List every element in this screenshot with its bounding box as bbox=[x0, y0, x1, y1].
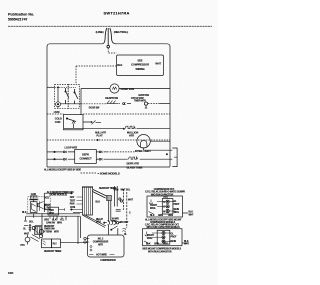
switch diagonals bbox=[31, 235, 41, 242]
wires to compressor bbox=[60, 242, 87, 244]
legend some models bbox=[81, 172, 97, 174]
svg-text:COND. FAN: COND. FAN bbox=[121, 87, 135, 91]
plug (service cord) bbox=[103, 28, 116, 48]
wire bundle bbox=[77, 187, 94, 215]
svg-text:CONNECT: CONNECT bbox=[79, 156, 92, 160]
mullion heater wire bbox=[64, 128, 124, 130]
connector pair row 1 left bbox=[63, 151, 65, 153]
diagonal BLK wire bbox=[93, 190, 107, 199]
svg-text:COMPRESSOR: COMPRESSOR bbox=[100, 260, 116, 262]
cold control output switch bbox=[83, 121, 101, 125]
svg-text:BLK: BLK bbox=[146, 244, 151, 246]
svg-text:WDG: WDG bbox=[150, 208, 156, 210]
svg-text:PTC RLY: PTC RLY bbox=[120, 222, 129, 224]
svg-text:RLY: RLY bbox=[53, 244, 58, 246]
defrost connector box bbox=[75, 150, 97, 164]
svg-text:SOL: SOL bbox=[29, 221, 34, 223]
wire dashed row 1 to lamp bbox=[107, 151, 135, 153]
svg-text:LOOP HTR: LOOP HTR bbox=[65, 146, 78, 150]
svg-text:YEL: YEL bbox=[60, 220, 65, 222]
wire row 1 from left bus bbox=[47, 151, 63, 153]
wire top to vertical bbox=[44, 192, 71, 194]
svg-text:RELAY: RELAY bbox=[96, 218, 104, 221]
timer motor box bbox=[48, 207, 59, 215]
labels evap fan / timer motor bbox=[131, 94, 149, 103]
svg-text:BLK: BLK bbox=[52, 220, 57, 222]
svg-text:MULL HTR: MULL HTR bbox=[95, 133, 106, 135]
defrost timer label bbox=[47, 188, 117, 197]
NO NC labels bbox=[45, 198, 50, 208]
svg-text:WHT: WHT bbox=[155, 62, 161, 66]
svg-text:MTR: MTR bbox=[54, 231, 59, 233]
svg-text:C.F.C. RELAY COMPRESSOR CKT.: C.F.C. RELAY COMPRESSOR CKT. bbox=[145, 224, 180, 227]
dashed some-models wire lower bbox=[47, 139, 170, 141]
wire bottom bbox=[47, 166, 170, 168]
defrost timer assembly outline bbox=[28, 197, 50, 214]
ice maker multi-contact switch bbox=[107, 101, 121, 104]
svg-text:ALL MODELS EXCEPT SIDE BY SIDE: ALL MODELS EXCEPT SIDE BY SIDE bbox=[44, 168, 81, 171]
wire row 2 from left bus bbox=[47, 158, 63, 160]
wire dashed to right bus bbox=[148, 103, 160, 105]
svg-text:GRN: GRN bbox=[114, 190, 119, 192]
svg-text:N.O.: N.O. bbox=[45, 198, 50, 200]
timer switch box bbox=[30, 202, 37, 213]
svg-text:M: M bbox=[163, 211, 165, 213]
wiring inside light boxes bbox=[55, 86, 77, 88]
switch cluster bbox=[38, 201, 44, 211]
service cord bracket bbox=[172, 148, 177, 167]
box B header bbox=[145, 224, 180, 230]
svg-text:WHT: WHT bbox=[189, 214, 195, 216]
junction row 1 bbox=[54, 151, 55, 152]
connector pair row 2 left bbox=[63, 158, 65, 160]
svg-text:PL HT: PL HT bbox=[97, 135, 104, 137]
svg-text:GRN: GRN bbox=[158, 215, 163, 217]
svg-text:SEE: SEE bbox=[138, 59, 143, 63]
connector pair row 1 right bbox=[96, 151, 99, 153]
junction row 2 bbox=[54, 159, 55, 160]
stub wires to bundle bbox=[70, 210, 83, 213]
svg-text:ORG: ORG bbox=[163, 244, 168, 246]
svg-text:WHT: WHT bbox=[24, 234, 30, 236]
drop wire to interior circuits bbox=[80, 89, 82, 104]
dashed drop from BLK wire bbox=[75, 66, 77, 84]
interior light dashed box bbox=[55, 84, 69, 108]
svg-text:WDG: WDG bbox=[147, 238, 153, 240]
svg-text:CON: CON bbox=[55, 120, 61, 124]
svg-text:EVAP FAN: EVAP FAN bbox=[139, 94, 150, 97]
svg-text:WIRING: WIRING bbox=[135, 67, 144, 71]
svg-text:START: START bbox=[150, 204, 158, 207]
svg-text:BLK: BLK bbox=[184, 241, 189, 243]
svg-text:ORG: ORG bbox=[168, 215, 173, 217]
svg-text:GLASS TUBE: GLASS TUBE bbox=[127, 165, 143, 169]
second dashed box (door switch) bbox=[68, 84, 79, 108]
svg-text:LN 50: LN 50 bbox=[54, 112, 60, 114]
svg-text:PROT: PROT bbox=[174, 204, 181, 206]
compressor box bbox=[88, 235, 125, 257]
svg-text:1/47 HP 115V: 1/47 HP 115V bbox=[131, 97, 144, 100]
svg-text:BLK: BLK bbox=[189, 212, 194, 214]
wire bbox=[127, 103, 131, 105]
small circle bbox=[39, 229, 43, 233]
10 MFD label bbox=[112, 218, 120, 223]
wire cold control to bus bbox=[80, 104, 82, 115]
mid dark component bbox=[35, 227, 42, 235]
dashed BLK wire from light box to compressor box bbox=[76, 65, 117, 67]
svg-text:(LINE): (LINE) bbox=[96, 30, 104, 34]
solenoid coil bbox=[107, 196, 112, 201]
svg-text:SIDE MOUNT COMPRESSOR MODELS: SIDE MOUNT COMPRESSOR MODELS bbox=[142, 249, 181, 251]
header rule bbox=[8, 25, 212, 27]
cam box bbox=[45, 204, 50, 210]
wire to right bus bbox=[160, 103, 170, 105]
svg-text:(NEUTRAL): (NEUTRAL) bbox=[114, 30, 128, 34]
svg-text:ALL MODELS EXCEPT SIDE MOUNT: ALL MODELS EXCEPT SIDE MOUNT bbox=[145, 218, 182, 221]
svg-text:PTC: PTC bbox=[164, 197, 169, 199]
svg-text:1154: 1154 bbox=[8, 271, 14, 275]
svg-text:MAIN: MAIN bbox=[171, 240, 177, 243]
svg-text:SWT21H7RA: SWT21H7RA bbox=[104, 11, 130, 16]
text block mid bbox=[44, 220, 65, 234]
svg-text:PROT: PROT bbox=[171, 236, 178, 238]
svg-text:HOT WIRE: HOT WIRE bbox=[96, 254, 107, 256]
light switch bbox=[66, 88, 69, 104]
svg-text:BRN: BRN bbox=[57, 222, 62, 224]
svg-text:COMPRESSOR CKT.: COMPRESSOR CKT. bbox=[154, 189, 175, 191]
svg-text:WHT: WHT bbox=[128, 199, 134, 201]
svg-text:CAM: CAM bbox=[31, 193, 36, 196]
svg-text:COLD: COLD bbox=[55, 117, 62, 121]
svg-text:RUN: RUN bbox=[70, 204, 75, 206]
wire top right from plug bbox=[116, 44, 171, 167]
svg-text:COMPRESSOR: COMPRESSOR bbox=[131, 62, 149, 66]
svg-text:INTER. LIGHT: INTER. LIGHT bbox=[135, 149, 151, 153]
connector arcs above compressor bbox=[108, 221, 116, 225]
svg-text:HTR: HTR bbox=[129, 134, 134, 138]
horizontal bus wires bbox=[26, 214, 80, 216]
condenser fan motor bbox=[110, 84, 119, 93]
svg-text:DEFR HTR: DEFR HTR bbox=[127, 162, 140, 166]
timer motor symbol bbox=[144, 102, 147, 105]
svg-text:WHT SOL: WHT SOL bbox=[121, 190, 131, 192]
interior lamp bbox=[56, 102, 61, 107]
label ice maker switch bbox=[105, 98, 119, 100]
lower left circle bbox=[25, 237, 30, 242]
svg-text:TIMER MTR: TIMER MTR bbox=[134, 101, 146, 103]
drops bbox=[34, 214, 81, 244]
capacitor marks bbox=[116, 209, 121, 211]
svg-text:BLK: BLK bbox=[96, 202, 101, 204]
svg-text:WHT: WHT bbox=[184, 244, 190, 246]
svg-text:BLK: BLK bbox=[150, 215, 155, 217]
svg-text:MTR: MTR bbox=[98, 244, 103, 246]
svg-text:WITH RUN CAPACITOR: WITH RUN CAPACITOR bbox=[148, 251, 172, 254]
svg-text:COMPRESSOR MODELS: COMPRESSOR MODELS bbox=[150, 222, 176, 224]
svg-text:TMR: TMR bbox=[49, 210, 54, 212]
svg-text:PTC: PTC bbox=[21, 245, 26, 247]
text stack right bbox=[70, 196, 76, 209]
box A header bbox=[145, 189, 185, 196]
svg-text:COMPRESSOR: COMPRESSOR bbox=[93, 241, 109, 243]
header publication number bbox=[8, 13, 34, 22]
connector pair bbox=[123, 103, 125, 105]
ground dashed wire to compressor box bbox=[108, 48, 116, 53]
cold control label bbox=[55, 117, 62, 125]
mullion heater bbox=[125, 126, 136, 129]
lamp to bus wire bbox=[144, 141, 173, 150]
svg-text:ICE MTR SW: ICE MTR SW bbox=[105, 98, 119, 100]
box A bbox=[147, 196, 183, 217]
svg-text:= SOME MODELS: = SOME MODELS bbox=[98, 172, 120, 176]
svg-text:TIMER SW: TIMER SW bbox=[44, 229, 55, 231]
wire top left from plug bbox=[47, 44, 103, 167]
cold control box bbox=[64, 115, 84, 130]
svg-text:MAIN: MAIN bbox=[174, 208, 180, 211]
vertical ladder wires bbox=[109, 201, 111, 223]
svg-text:DEFR: DEFR bbox=[82, 152, 89, 156]
header model title bbox=[104, 11, 130, 16]
defrost heater bbox=[128, 157, 138, 159]
door switch bbox=[75, 89, 78, 104]
svg-text:Publication No.: Publication No. bbox=[8, 13, 34, 17]
wire dashed to ice maker switch bbox=[81, 103, 107, 105]
svg-text:COM: COM bbox=[70, 207, 75, 209]
svg-text:DOOR SW: DOOR SW bbox=[89, 108, 100, 110]
svg-text:GRN: GRN bbox=[154, 244, 159, 246]
svg-text:BLK: BLK bbox=[117, 63, 122, 67]
svg-text:TEST: TEST bbox=[70, 200, 76, 202]
left OL circle bbox=[24, 216, 42, 225]
svg-text:ORG: ORG bbox=[44, 220, 49, 222]
svg-text:C.F.C. RELAY, GUARD-O-MATIC CO: C.F.C. RELAY, GUARD-O-MATIC COMPR bbox=[145, 191, 185, 194]
svg-text:370V: 370V bbox=[112, 221, 117, 223]
svg-text:ORG: ORG bbox=[96, 222, 101, 224]
svg-text:5995421747: 5995421747 bbox=[8, 18, 28, 22]
dashed some-models wire upper bbox=[47, 113, 170, 115]
wire through fan motor bbox=[81, 88, 170, 90]
svg-text:DEFROST TIMER: DEFROST TIMER bbox=[44, 251, 62, 253]
compressor wiring box bbox=[117, 55, 164, 76]
svg-text:ADV: ADV bbox=[70, 196, 75, 199]
svg-text:(SOME MODELS): (SOME MODELS) bbox=[50, 195, 68, 197]
bus stub to light box bbox=[47, 86, 55, 88]
box B bbox=[143, 229, 183, 246]
two boxes bbox=[42, 239, 52, 248]
svg-text:4 TERM: 4 TERM bbox=[44, 230, 52, 233]
svg-text:BLK: BLK bbox=[22, 212, 27, 214]
svg-text:WDG: WDG bbox=[174, 212, 180, 214]
interior light lamp bbox=[137, 135, 150, 148]
svg-text:DEFROST: DEFROST bbox=[44, 226, 55, 228]
svg-text:NO. 2: NO. 2 bbox=[98, 239, 104, 241]
svg-text:CAM SW: CAM SW bbox=[46, 221, 56, 224]
